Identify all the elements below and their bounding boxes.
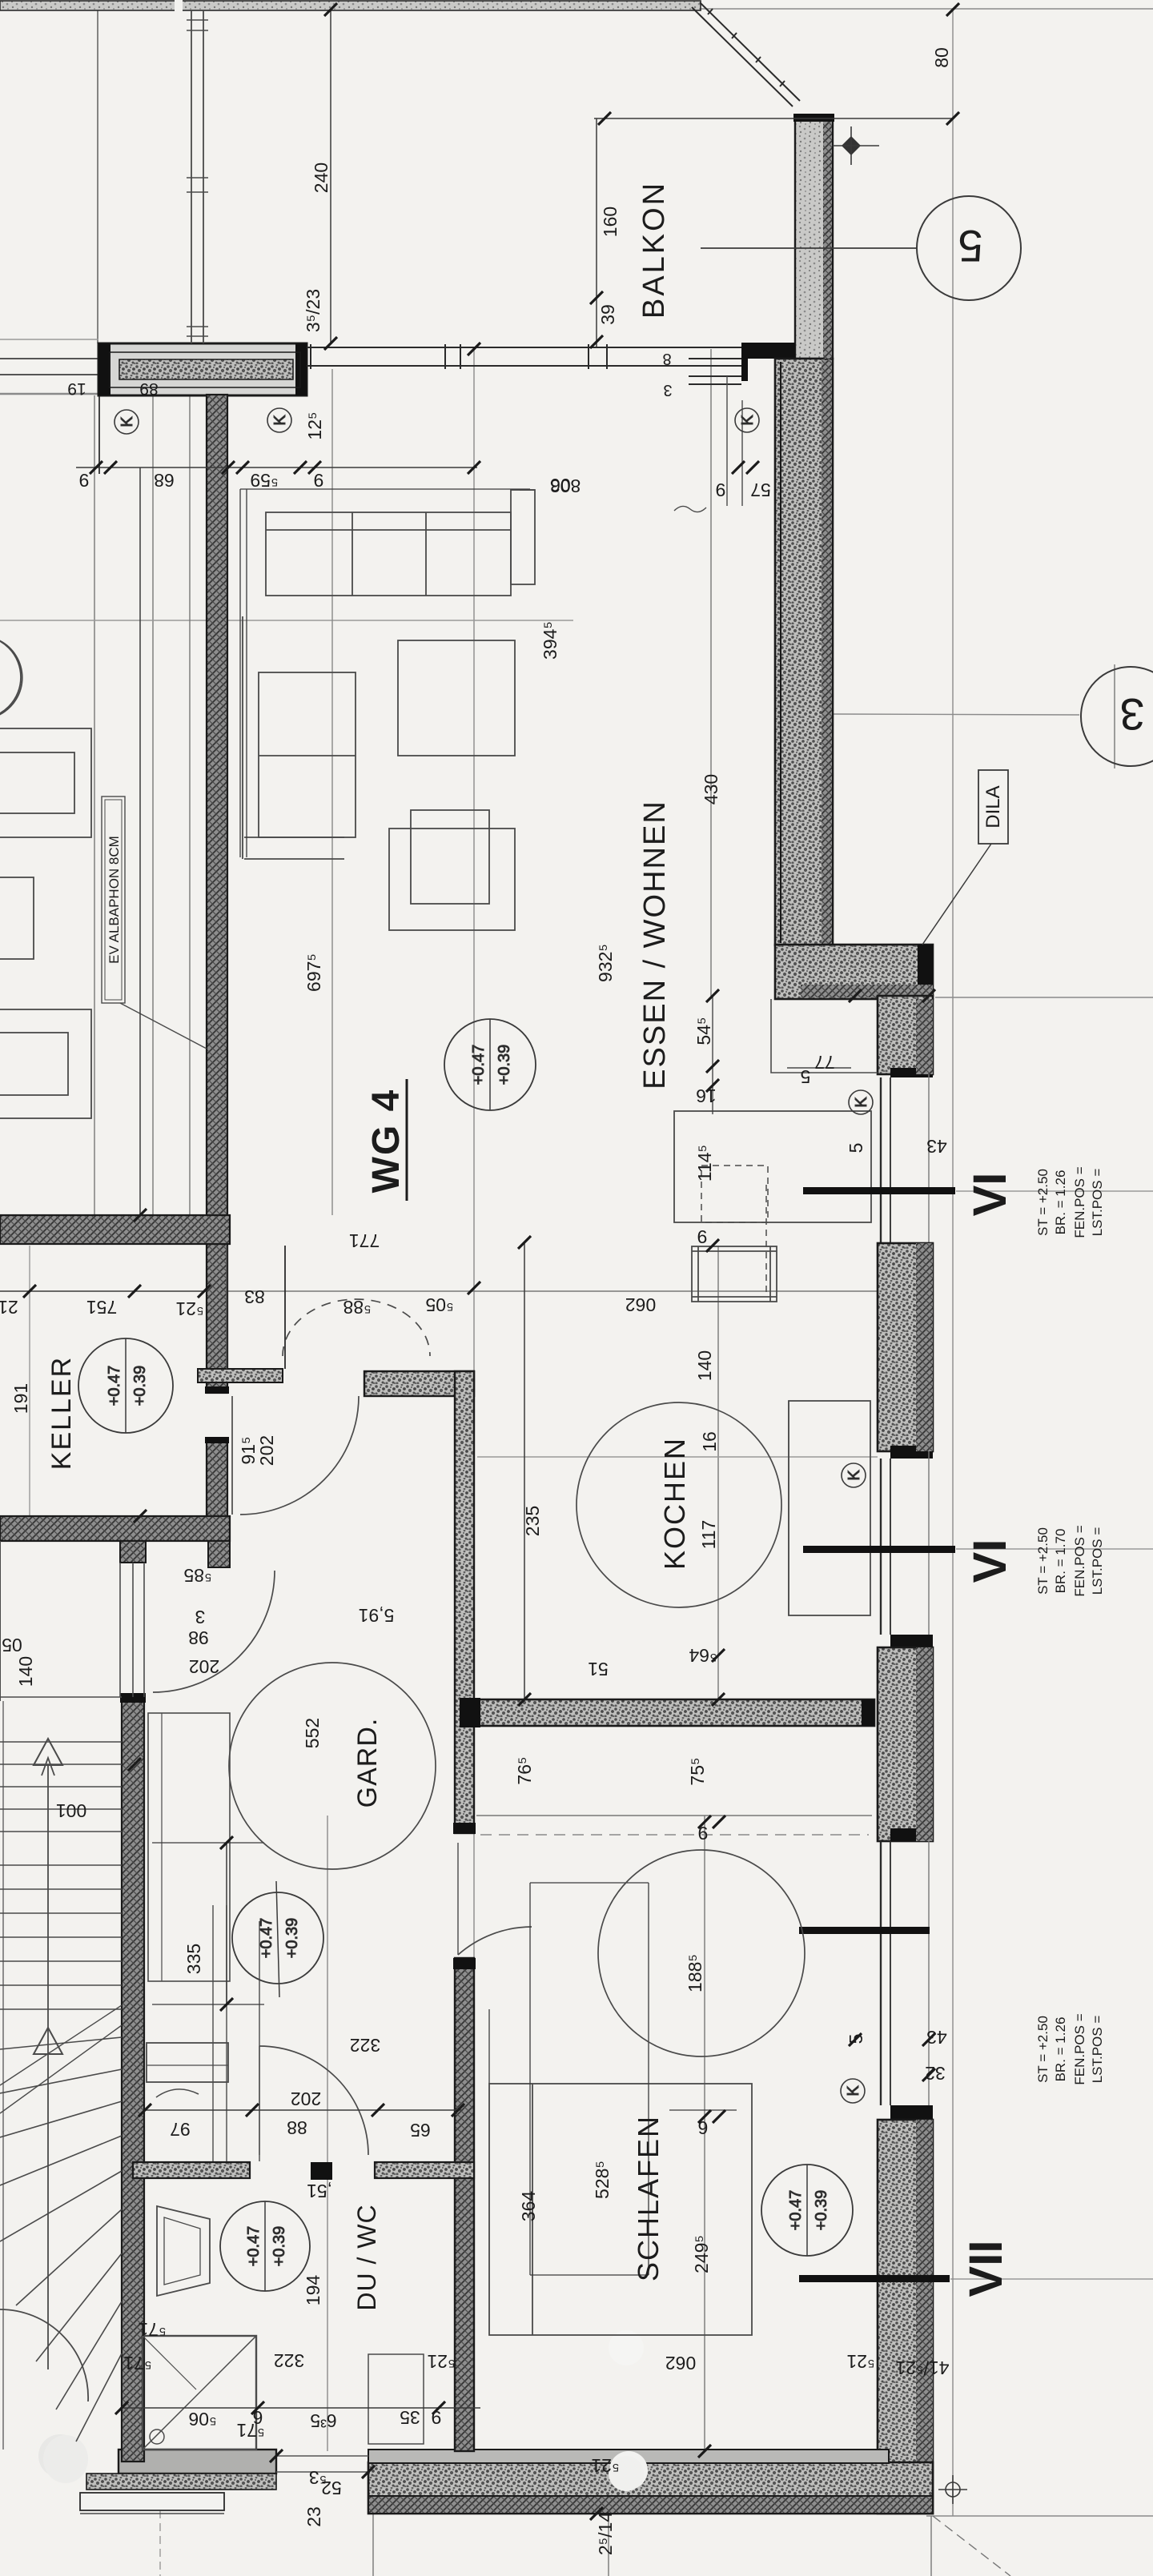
wall east segment C	[878, 1647, 933, 1841]
svg-text:ST = +2.50: ST = +2.50	[1035, 1527, 1051, 1595]
dimension line y3008 bottom chain	[120, 2407, 480, 2409]
svg-text:57: 57	[750, 479, 771, 500]
K circle 1	[114, 410, 139, 434]
svg-text:751: 751	[86, 1297, 117, 1318]
gridline x118 left unit	[94, 395, 95, 1215]
wall keller south	[0, 1516, 230, 1541]
svg-text:117: 117	[698, 1520, 719, 1550]
stair direction triangle 1	[34, 1739, 62, 1765]
svg-text:188⁵: 188⁵	[685, 1954, 705, 1992]
svg-text:+0.47: +0.47	[470, 1045, 488, 1085]
wall balcony outer crosshatch strip	[823, 122, 832, 359]
window1 east (kitchen) glass	[881, 1074, 929, 1246]
svg-text:+0.39: +0.39	[496, 1045, 513, 1085]
svg-text:140: 140	[15, 1656, 36, 1687]
svg-text:+0.47: +0.47	[787, 2190, 805, 2231]
svg-text:VI: VI	[964, 1539, 1016, 1583]
schlafen sideboard left	[488, 2009, 490, 2084]
dimension line y584 chain	[76, 467, 477, 468]
K circle 3	[735, 408, 759, 432]
dashed line below kitchen wall	[480, 1834, 869, 1836]
svg-text:+0.47: +0.47	[245, 2226, 263, 2267]
ticks	[23, 3, 959, 2520]
svg-text:83: 83	[244, 1286, 265, 1307]
wall hall west cap	[453, 1823, 476, 1834]
K circle 2	[267, 408, 291, 432]
svg-text:ST = +2.50: ST = +2.50	[1035, 1169, 1051, 1236]
kitchen dashed appliance	[701, 1166, 768, 1222]
gridline below wall x760	[608, 2514, 609, 2576]
wall jog outer crosshatch strip	[801, 985, 933, 997]
window bay reveal (jog wall)	[771, 999, 878, 1073]
left unit round table arc	[0, 640, 22, 715]
svg-text:⁵21: ⁵21	[846, 2351, 874, 2372]
svg-text:39: 39	[597, 304, 618, 325]
svg-text:3⁵/23: 3⁵/23	[303, 289, 323, 332]
svg-text:ESSEN / WOHNEN: ESSEN / WOHNEN	[638, 800, 672, 1089]
svg-text:LST.POS =: LST.POS =	[1090, 2016, 1105, 2084]
wall hall west vertical	[455, 1371, 474, 1833]
K circle 4	[849, 1090, 873, 1114]
gridline y1820 kitchen	[477, 1456, 878, 1458]
blob white stair bottom	[43, 2435, 88, 2483]
gridline x880 schlafen axis	[704, 1816, 705, 2451]
door leaf keller	[231, 1396, 233, 1515]
du-wc door rect bottom	[368, 2354, 424, 2444]
svg-text:WG 4: WG 4	[365, 1089, 408, 1194]
svg-text:697⁵: 697⁵	[303, 953, 324, 992]
wall balcony cap top	[793, 114, 834, 122]
dimension line keller y1613	[0, 1290, 208, 1292]
svg-text:⁵71: ⁵71	[138, 2319, 166, 2340]
gridline y448/468 left stub	[0, 339, 98, 340]
circle bubble 3	[1081, 667, 1153, 766]
gridline x897 kitchen axis	[717, 1246, 719, 1701]
wall east segment B (kitchen)	[878, 1243, 933, 1451]
wall party (crosshatch) vertical	[207, 395, 227, 1393]
door arc keller	[240, 1396, 359, 1515]
svg-text:K: K	[271, 415, 289, 426]
dimension sofa bracket	[240, 489, 530, 857]
wall balcony side (east parapet)	[795, 115, 833, 359]
wall south-left (under bath)	[119, 2450, 276, 2474]
door arc schlafen	[458, 1927, 532, 1955]
svg-text:9: 9	[698, 1823, 709, 1844]
svg-text:9: 9	[79, 470, 90, 491]
left unit cabinet 2	[0, 1009, 91, 1118]
wall niche south band	[198, 1369, 283, 1382]
svg-text:K: K	[119, 416, 136, 427]
wall bath north segment left	[133, 2162, 250, 2178]
gridline y1488 right	[956, 1190, 1153, 1192]
wall south-left insulation	[86, 2474, 276, 2490]
svg-text:322: 322	[274, 2350, 304, 2371]
svg-text:⁵06: ⁵06	[188, 2409, 216, 2430]
level circle living	[444, 1019, 536, 1110]
svg-text:364: 364	[518, 2191, 539, 2222]
svg-text:⁵88: ⁵88	[343, 1297, 371, 1318]
gridline y1935 right	[956, 1548, 1153, 1550]
svg-text:12⁵: 12⁵	[304, 411, 325, 439]
gridline y772 left unit	[0, 620, 573, 621]
svg-text:77: 77	[814, 1052, 835, 1073]
svg-text:+0.39: +0.39	[271, 2226, 288, 2267]
wall cap window1 sill	[893, 1242, 929, 1262]
dimension line x283 335-chain	[226, 1843, 227, 2004]
svg-text:51: 51	[588, 1659, 609, 1679]
svg-text:191: 191	[10, 1383, 31, 1414]
wall party cap	[205, 1386, 229, 1394]
wall corner jamb at balcony door	[741, 343, 795, 381]
wall stair east (crosshatch)	[122, 1701, 144, 2462]
dim texts rotated 180	[0, 350, 950, 2498]
wall bath north segment right	[375, 2162, 474, 2178]
wall south-left outer ledge	[80, 2493, 224, 2510]
stair direction triangle 2	[34, 2028, 62, 2054]
gridline x237 albaphon lining	[189, 395, 191, 1215]
left unit sideboard	[0, 728, 91, 837]
svg-text:K: K	[846, 1470, 863, 1481]
svg-text:80: 80	[931, 47, 952, 68]
wall east upper inner edge line	[780, 362, 781, 943]
gridline y2268 schlafen top	[476, 1815, 872, 1816]
svg-text:+0.39: +0.39	[283, 1918, 301, 1959]
svg-text:VII: VII	[960, 2241, 1012, 2297]
wall gap threshold lines (terrace door)	[276, 2455, 368, 2457]
gridline x888 living dim	[710, 349, 712, 999]
svg-text:K: K	[739, 415, 757, 426]
svg-text:K: K	[845, 2085, 862, 2097]
gridline x122 balcony left	[97, 9, 98, 343]
door arc dashed (niche double leaf)	[283, 1299, 430, 1356]
svg-text:235: 235	[522, 1506, 543, 1536]
svg-text:202: 202	[256, 1435, 277, 1466]
svg-text:75⁵: 75⁵	[687, 1757, 708, 1785]
svg-text:BR. = 1.26: BR. = 1.26	[1053, 2017, 1068, 2082]
dimension line x175 left chain	[139, 467, 141, 1215]
gridline horizontal top edge	[701, 8, 1153, 10]
window3 east (schlafen) glass	[881, 1841, 929, 2105]
svg-text:5: 5	[801, 1066, 811, 1087]
circle gard	[229, 1663, 436, 1869]
svg-text:41/⁵21: 41/⁵21	[895, 2357, 949, 2378]
kitchen counter right inner	[788, 1401, 789, 1615]
wall south inner line	[368, 2450, 889, 2463]
sofa armrest right	[511, 490, 535, 584]
svg-text:5: 5	[846, 2034, 866, 2044]
svg-text:35: 35	[400, 2407, 420, 2428]
dimension line x890 kitchen top	[712, 996, 713, 1114]
wall kitchen south cap right	[862, 1699, 874, 1726]
svg-text:SCHLAFEN: SCHLAFEN	[632, 2115, 665, 2281]
svg-text:6³5: 6³5	[310, 2410, 336, 2431]
svg-text:9: 9	[716, 479, 726, 500]
corridor left lines	[0, 1541, 1, 1701]
svg-text:394⁵: 394⁵	[540, 621, 560, 660]
svg-text:DU / WC: DU / WC	[352, 2204, 381, 2310]
svg-text:001: 001	[56, 1800, 86, 1821]
svg-text:932⁵: 932⁵	[595, 944, 616, 982]
svg-text:⁵59: ⁵59	[250, 470, 278, 491]
kitchen counter right	[789, 1401, 870, 1615]
svg-text:FEN.POS =: FEN.POS =	[1072, 1525, 1087, 1596]
wall left unit parapet end caps	[98, 343, 110, 395]
svg-text:88: 88	[287, 2117, 307, 2138]
dimension bracket schlafen room	[530, 1883, 649, 2275]
bed (schlafen)	[489, 2084, 752, 2335]
svg-text:LST.POS =: LST.POS =	[1090, 1527, 1105, 1595]
svg-text:⁵85: ⁵85	[183, 1565, 211, 1586]
svg-text:⁵71: ⁵71	[236, 2420, 264, 2441]
svg-text:BALKON: BALKON	[637, 181, 671, 319]
wall east segment D (schlafen to corner)	[878, 2120, 933, 2514]
svg-text:+0.47: +0.47	[258, 1918, 275, 1959]
svg-text:23: 23	[303, 2506, 324, 2527]
svg-text:98: 98	[188, 1627, 209, 1648]
wall cap window1 top	[890, 1068, 933, 1077]
svg-text:43: 43	[926, 1136, 947, 1157]
svg-text:89: 89	[139, 379, 158, 398]
wall du-wc east cap	[453, 1958, 476, 1969]
svg-text:ST = +2.50: ST = +2.50	[1035, 2016, 1051, 2083]
window band living north (glazing)	[307, 344, 741, 384]
doors and symbols	[153, 10, 532, 2155]
bath vanity faucet curve	[156, 2089, 199, 2097]
diagonal line bottom right	[933, 2516, 1010, 2576]
svg-text:KOCHEN: KOCHEN	[658, 1437, 691, 1570]
svg-text:05: 05	[2, 1635, 22, 1655]
survey diamond top	[842, 136, 861, 155]
dimension line y2636 bath chain	[145, 2109, 463, 2111]
svg-text:⁵21: ⁵21	[427, 2351, 455, 2372]
toilet	[157, 2206, 210, 2296]
svg-text:19: 19	[67, 379, 86, 398]
balcony partition double line	[191, 10, 192, 343]
section bar window3 top	[799, 1927, 930, 1934]
wall east upper (living)	[775, 359, 833, 945]
stair walk line with arrow	[47, 1764, 49, 2369]
stair flight diagonal edge	[0, 2005, 122, 2085]
svg-text:9: 9	[697, 1226, 708, 1247]
K circle 6	[841, 2079, 865, 2103]
sofa horizontal (living)	[266, 512, 511, 596]
svg-text:160: 160	[600, 207, 621, 237]
svg-text:LST.POS =: LST.POS =	[1090, 1169, 1105, 1237]
svg-text:32: 32	[925, 2063, 946, 2084]
wall left unit parapet	[98, 343, 307, 395]
section bar VII	[799, 2275, 950, 2282]
dim texts rotated -90	[10, 47, 952, 2555]
stair landing door lines	[119, 1563, 121, 1697]
wall east segment A (jog to window1)	[878, 996, 933, 1074]
gridline y2845 right	[950, 2278, 1153, 2280]
svg-text:430: 430	[701, 774, 721, 804]
wall top horizontal (left unit / keller separation)	[0, 1215, 230, 1244]
blob white schlafen2	[609, 2456, 644, 2491]
svg-text:140: 140	[694, 1350, 715, 1381]
gridline y3143 right	[926, 2515, 1153, 2517]
svg-text:3: 3	[663, 381, 672, 399]
dimension line balcony left vertical	[596, 118, 597, 347]
level circle du-wc	[220, 2201, 310, 2291]
text block window VI kitchen	[1035, 1166, 1105, 1238]
svg-text:⁵05: ⁵05	[425, 1294, 453, 1315]
stair treads straight	[0, 1741, 122, 1743]
gridline y892 to circle 3	[831, 714, 1079, 715]
dimension line 240 left	[330, 10, 331, 343]
svg-text:BR. = 1.26: BR. = 1.26	[1053, 1170, 1068, 1235]
svg-text:062: 062	[625, 1294, 656, 1315]
wall bath north jamb	[311, 2162, 332, 2180]
svg-text:65: 65	[410, 2120, 431, 2141]
svg-text:240: 240	[311, 163, 331, 193]
armchair table 1	[398, 640, 515, 756]
svg-text:+0.39: +0.39	[813, 2190, 830, 2231]
wall keller south stub right	[208, 1541, 230, 1567]
node circle white bottom-left	[38, 2434, 82, 2478]
section bar VI kitchen	[803, 1187, 955, 1194]
K circle 5	[842, 1463, 866, 1487]
text block window VII	[1035, 2013, 1105, 2084]
albaphon label box	[102, 796, 125, 1003]
wall hall north (kitchen side)	[364, 1371, 474, 1396]
wall jog (z-step)	[775, 945, 933, 999]
door arc gard	[153, 1571, 275, 1692]
armchair table 2	[389, 829, 515, 930]
svg-text:43: 43	[926, 2027, 947, 2048]
svg-text:16: 16	[696, 1085, 717, 1106]
svg-text:5: 5	[846, 1143, 866, 1154]
wall east upper outer crosshatch strip	[822, 360, 832, 945]
svg-text:68: 68	[154, 470, 175, 491]
wall niche east line	[284, 1246, 286, 1369]
svg-text:771: 771	[349, 1230, 380, 1251]
wall jog corner black	[918, 945, 933, 999]
stair curved stringer	[0, 2309, 88, 2401]
stair landing edge	[0, 1696, 122, 1698]
gridline x592 main axis	[473, 349, 475, 2451]
svg-text:3: 3	[1119, 689, 1144, 740]
circle kochen	[576, 1402, 781, 1607]
wall south outer dark edge	[368, 2496, 933, 2514]
gridline x1392 through circle3	[1114, 664, 1115, 768]
svg-text:202: 202	[189, 1656, 219, 1677]
kitchen counter top	[674, 1111, 871, 1222]
wall left unit parapet insulation core	[119, 359, 293, 379]
svg-text:803: 803	[550, 475, 581, 496]
svg-text:5,91: 5,91	[359, 1605, 395, 1626]
svg-text:⁵21: ⁵21	[175, 1298, 203, 1319]
stair bottom landing rect	[80, 2513, 224, 2514]
svg-text:6: 6	[698, 2117, 709, 2138]
wall cap window2 top	[890, 1446, 933, 1459]
wall left unit parapet inner line	[110, 352, 300, 387]
svg-text:⁵21: ⁵21	[591, 2455, 619, 2476]
survey crosshair bottom	[946, 2482, 960, 2497]
svg-text:2⁵/14: 2⁵/14	[595, 2512, 616, 2556]
svg-text:VI: VI	[964, 1173, 1016, 1217]
gard wardrobe	[148, 1713, 230, 1981]
gridline x37 keller	[29, 1246, 30, 1516]
wall kitchen south cap left	[460, 1698, 480, 1727]
dimension line x655 hall	[524, 1242, 525, 1699]
svg-text:9: 9	[432, 2407, 442, 2428]
svg-text:GARD.: GARD.	[352, 1718, 383, 1808]
gridline x1190 main axis right	[952, 9, 954, 2516]
svg-text:249⁵: 249⁵	[691, 2235, 712, 2273]
node circle white bottom-mid	[609, 2451, 648, 2490]
bath vanity	[147, 2043, 228, 2082]
wall top band (balcony slab edge)	[0, 1, 701, 10]
svg-text:,51: ,51	[307, 2181, 332, 2201]
svg-text:8: 8	[662, 350, 671, 367]
svg-text:9: 9	[314, 470, 324, 491]
level circle schlafen	[761, 2165, 853, 2256]
wall kitchen south	[474, 1699, 874, 1726]
svg-text:5: 5	[958, 221, 982, 271]
svg-text:3: 3	[195, 1607, 206, 1627]
blob white schlafen1	[609, 2330, 644, 2365]
svg-text:528⁵: 528⁵	[592, 2161, 613, 2199]
level circle keller	[78, 1338, 173, 1433]
svg-text:K: K	[853, 1097, 870, 1108]
sofa vertical (living)	[259, 672, 356, 837]
svg-text:202: 202	[291, 2088, 321, 2109]
dila box	[978, 770, 1008, 844]
window2 east glass	[881, 1451, 929, 1635]
furniture	[0, 490, 878, 2450]
gridline x191 left unit partition	[152, 395, 154, 1215]
level mark circles	[78, 408, 873, 2291]
wall cap window2 bottom	[890, 1635, 933, 1647]
svg-text:322: 322	[350, 2035, 380, 2056]
svg-text:54⁵: 54⁵	[693, 1017, 714, 1045]
svg-text:⁵64: ⁵64	[689, 1645, 717, 1666]
text block window VI 2	[1035, 1525, 1105, 1596]
gridline below wall x200	[159, 2510, 161, 2576]
circle bubble 5	[917, 196, 1021, 300]
stairs	[0, 1541, 224, 2514]
walls	[0, 0, 933, 2514]
dimension line balcony top	[594, 118, 953, 119]
kitchen dashed duct line	[765, 1185, 767, 1297]
svg-text:KELLER: KELLER	[46, 1356, 77, 1470]
bath duct lines	[212, 1905, 214, 2161]
wall diagonal balcony screen	[692, 2, 800, 106]
wall stair cap top	[120, 1693, 146, 1703]
stair winder treads	[0, 2037, 122, 2049]
svg-text:194: 194	[303, 2275, 323, 2306]
gridline x409 bath axis	[327, 1816, 328, 2451]
wall cap window3 bottom	[890, 2105, 933, 2120]
wall cap window3 top	[890, 1828, 933, 1841]
gridline below wall x466	[372, 2514, 374, 2576]
wall south (under schlafen) outer	[368, 2462, 933, 2514]
wall party lower stub	[207, 1438, 227, 1516]
gridline y1609 mid dim line	[0, 1290, 929, 1292]
svg-text:FEN.POS =: FEN.POS =	[1072, 2013, 1087, 2084]
svg-text:+0.47: +0.47	[106, 1366, 123, 1406]
svg-text:335: 335	[183, 1944, 204, 1974]
svg-text:76⁵: 76⁵	[514, 1756, 535, 1784]
wall east outer crosshatch strip	[916, 999, 933, 1074]
svg-text:DILA: DILA	[982, 785, 1004, 828]
gridline x415 living axis	[331, 369, 333, 1215]
stair left edge lines	[2, 1701, 4, 2450]
circle schlafen 188	[598, 1850, 805, 2056]
section bar VI window2	[803, 1546, 955, 1553]
dim ext lines balcony door	[726, 376, 728, 506]
